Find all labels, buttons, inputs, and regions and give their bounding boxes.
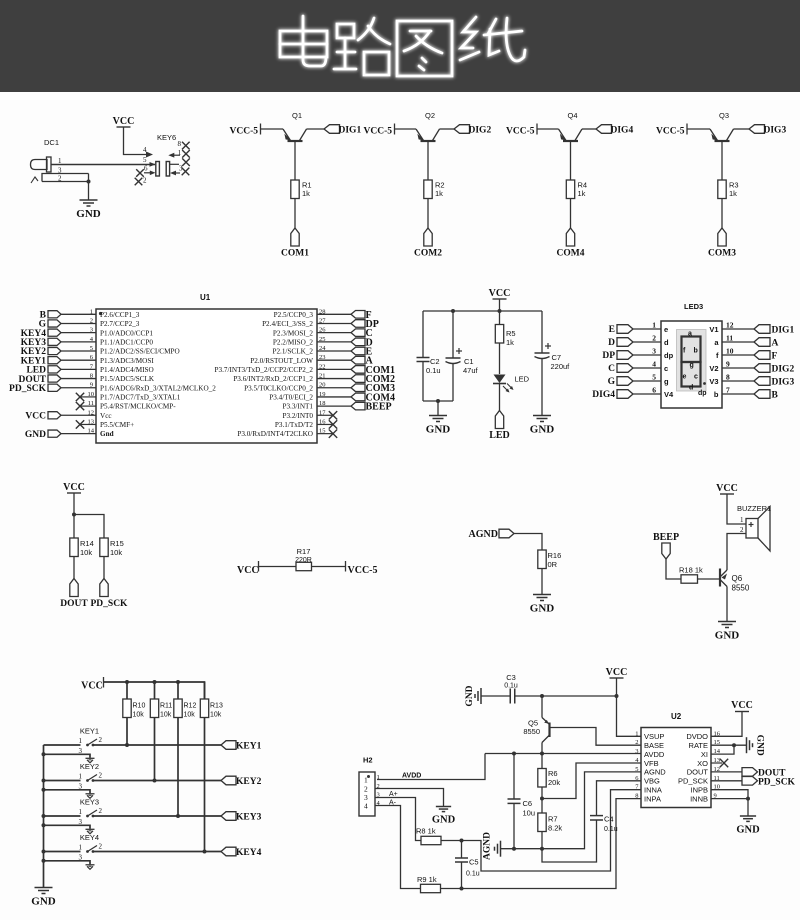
svg-text:Q4: Q4: [568, 111, 578, 120]
svg-text:RATE: RATE: [689, 741, 708, 750]
U1 pin1 dot: [99, 312, 102, 315]
wire AVDD rail from H2 pin1: [377, 754, 485, 780]
svg-text:U1: U1: [200, 293, 211, 302]
wire R11 top: [154, 682, 156, 699]
wire KEY1 pin2 to tag: [93, 744, 221, 746]
svg-text:e: e: [683, 374, 687, 381]
svg-text:G: G: [608, 377, 616, 387]
svg-text:2: 2: [99, 807, 103, 815]
svg-text:g: g: [664, 377, 669, 386]
svg-text:BASE: BASE: [644, 741, 664, 750]
wire R15 to PD_SCK tag: [103, 557, 105, 579]
junction Q5 emitter node: [540, 694, 544, 698]
svg-text:1k: 1k: [506, 338, 514, 347]
svg-text:AVDD: AVDD: [402, 773, 421, 780]
svg-text:B: B: [772, 391, 779, 401]
wire DC1 pin3 bracket: [42, 174, 89, 182]
svg-text:8: 8: [178, 140, 182, 148]
ground GND below Q6: [718, 621, 736, 623]
svg-text:DIG1: DIG1: [772, 326, 795, 336]
svg-text:AGND: AGND: [469, 529, 498, 540]
wire Q4 collector to DIG4: [582, 128, 596, 130]
resistor R7 8.2k: [538, 813, 546, 832]
connector tag KEY3: [221, 812, 236, 821]
banner background: [0, 0, 800, 92]
svg-text:4: 4: [652, 360, 656, 369]
U1 pin 8 tag DOUT: [48, 375, 61, 382]
svg-text:Q1: Q1: [292, 111, 302, 120]
svg-text:KEY2: KEY2: [236, 777, 262, 787]
wire branch to R15: [74, 515, 104, 539]
svg-text:5: 5: [635, 766, 638, 773]
svg-text:VCC: VCC: [81, 681, 103, 692]
wire U2 pin9 INNB to GND: [711, 798, 748, 800]
svg-text:C1: C1: [464, 357, 474, 366]
ground GND below C7: [533, 415, 551, 417]
wire R5 to LED: [499, 343, 501, 374]
svg-text:2: 2: [740, 526, 744, 534]
junction R15 branch: [72, 513, 76, 517]
svg-text:P1.6/ADC6/RxD_3/XTAL2/MCLKO_2: P1.6/ADC6/RxD_3/XTAL2/MCLKO_2: [100, 384, 216, 392]
svg-text:8: 8: [90, 373, 93, 380]
no-connect X U1 pin 16: [317, 423, 333, 425]
svg-text:23: 23: [319, 354, 326, 361]
svg-text:P2.2/MISO_2: P2.2/MISO_2: [273, 338, 314, 346]
svg-text:10k: 10k: [110, 548, 122, 557]
svg-text:2: 2: [143, 177, 147, 185]
svg-text:R12: R12: [184, 703, 197, 710]
junction C5 top: [460, 839, 464, 843]
svg-text:28: 28: [319, 308, 326, 315]
wire to GND below U2: [747, 799, 749, 816]
KEY6 switch body pads: [156, 162, 160, 177]
svg-text:10: 10: [88, 391, 95, 398]
svg-text:P2.5/CCP0_3: P2.5/CCP0_3: [274, 311, 314, 319]
svg-text:C4: C4: [604, 815, 614, 824]
wire KEY4 pin2 to tag: [93, 851, 221, 853]
wire VCC-5 to Q1 emitter: [261, 128, 284, 130]
svg-text:5: 5: [90, 345, 93, 352]
svg-text:c: c: [664, 364, 668, 373]
wire Q1 base to R1: [294, 141, 296, 180]
wire VCC to R17: [259, 566, 297, 568]
svg-text:GND: GND: [755, 735, 765, 756]
no-connect X KEY6 pin8: [182, 142, 190, 150]
wire U1 pin 14: [61, 433, 96, 435]
resistor R3 1k: [718, 180, 726, 199]
no-connect X KEY6 pin3: [182, 168, 190, 176]
svg-text:BEEP: BEEP: [653, 532, 679, 543]
no-connect X KEY6 right pin2: [182, 158, 190, 166]
wire keypad VCC rail: [104, 682, 205, 699]
resistor R8 1k: [421, 836, 441, 844]
connector DC1 barrel jack: [31, 160, 48, 170]
wire U2 pin15 RATE to GND: [711, 744, 747, 746]
svg-text:GND: GND: [426, 424, 451, 436]
banner title glyph strokes: [280, 16, 525, 76]
wire R13 top: [204, 682, 206, 699]
svg-text:9: 9: [726, 360, 730, 369]
svg-text:C5: C5: [469, 858, 479, 867]
svg-text:COM4: COM4: [557, 249, 585, 259]
svg-text:P2.6/CCP1_3: P2.6/CCP1_3: [100, 311, 140, 319]
svg-text:DIG4: DIG4: [611, 126, 634, 136]
svg-text:220R: 220R: [295, 557, 312, 564]
U1 pin 1 tag B: [48, 311, 61, 318]
U1 pin 5 tag KEY2: [48, 347, 61, 354]
wire KEY6 pin6 stub: [144, 172, 151, 174]
svg-text:1: 1: [364, 776, 368, 785]
wire KEY2 pin2 to tag: [93, 780, 221, 782]
wire U1 pin 1: [61, 313, 96, 315]
resistor R10 10k: [123, 699, 131, 718]
U1 pin 20 tag COM3: [317, 387, 351, 389]
wire U1 pin 4: [61, 341, 96, 343]
svg-text:1: 1: [79, 737, 83, 745]
wire LED3 pin 6: [633, 393, 661, 395]
svg-text:DIG4: DIG4: [592, 390, 615, 400]
ground GND below C1 C2: [429, 415, 447, 417]
svg-text:3: 3: [652, 347, 656, 356]
svg-text:V4: V4: [664, 390, 674, 399]
svg-text:2: 2: [99, 736, 103, 744]
wire pin5 arrowhead into pad: [150, 162, 156, 167]
connector H2 body: [359, 772, 375, 816]
svg-text:R17: R17: [297, 547, 311, 556]
capacitor C2: [422, 311, 424, 358]
svg-text:C3: C3: [506, 673, 516, 682]
svg-text:8.2k: 8.2k: [548, 824, 562, 833]
svg-text:0.1u: 0.1u: [466, 871, 480, 878]
junction Q5 collector AVDD: [540, 752, 544, 756]
svg-text:KEY6: KEY6: [157, 133, 176, 142]
junction R12 top: [176, 680, 180, 684]
svg-text:GND: GND: [465, 685, 475, 706]
svg-text:C: C: [608, 364, 615, 374]
connector tag COM3: [718, 228, 726, 246]
wire Q5 base to U2 pin2 BASE: [550, 728, 642, 746]
svg-text:1: 1: [652, 321, 656, 330]
svg-text:P1.0/ADC0/CCP1: P1.0/ADC0/CCP1: [100, 329, 153, 337]
resistor R13 10k: [200, 699, 208, 718]
svg-text:PD_SCK: PD_SCK: [91, 599, 129, 609]
wire H2 pin2 to GND: [375, 789, 444, 807]
svg-text:Q2: Q2: [425, 111, 435, 120]
svg-text:18: 18: [319, 400, 326, 407]
capacitor C1 47uf: [452, 311, 454, 358]
svg-text:LED: LED: [489, 430, 510, 441]
wire R10 top: [126, 682, 128, 699]
U1 pin 6 tag KEY1: [48, 357, 61, 364]
wire bracket vertical to ground: [88, 174, 90, 201]
wire KEY6 right pad pin2: [170, 163, 179, 165]
resistor R18 1k: [681, 575, 698, 583]
svg-text:d: d: [664, 338, 669, 347]
svg-text:P5.5/CMF+: P5.5/CMF+: [100, 421, 134, 429]
svg-text:P1.4/ADC4/MISO: P1.4/ADC4/MISO: [100, 366, 154, 374]
svg-text:13: 13: [88, 418, 95, 425]
svg-text:COM2: COM2: [414, 249, 442, 259]
no-connect X U1 pin 11: [80, 405, 96, 407]
svg-text:LED3: LED3: [684, 302, 703, 311]
LED3 pin 6 tag DIG4: [617, 390, 633, 399]
svg-text:AGND: AGND: [644, 768, 666, 777]
svg-text:F: F: [772, 352, 778, 362]
LED3 pin 3 tag DP: [617, 351, 633, 360]
wire buzzer pin2 to Q6 emitter: [727, 534, 746, 571]
connector tag DIG2: [454, 125, 470, 134]
wire R14 to DOUT tag: [73, 557, 75, 579]
wire U1 pin 6: [61, 359, 96, 361]
wire C3 to VCC junction: [515, 695, 617, 697]
svg-text:1k: 1k: [578, 189, 586, 198]
wire BEEP to R18: [666, 559, 681, 579]
ground GND below H2 pin2: [436, 806, 451, 808]
svg-text:AGND: AGND: [483, 832, 493, 860]
svg-text:b: b: [694, 348, 698, 355]
svg-text:BEEP: BEEP: [366, 402, 392, 413]
U1 pin 18 tag BEEP: [317, 405, 351, 407]
svg-text:R7: R7: [548, 815, 558, 824]
wire bus to KEY1 pin1: [44, 744, 81, 746]
svg-text:1: 1: [79, 808, 83, 816]
U1 pin 19 tag COM4: [317, 396, 351, 398]
svg-text:KEY4: KEY4: [236, 848, 262, 858]
svg-text:Q6: Q6: [732, 574, 743, 583]
connector tag DIG4: [596, 125, 612, 134]
connector tag KEY4: [221, 847, 236, 856]
junction R11 top: [153, 680, 157, 684]
svg-text:P1.1/ADC1/CCP0: P1.1/ADC1/CCP0: [100, 338, 153, 346]
wire DC1 pin2: [42, 181, 89, 183]
svg-text:10k: 10k: [133, 712, 145, 719]
svg-text:P3.6/INT2/RxD_2/CCP1_2: P3.6/INT2/RxD_2/CCP1_2: [233, 375, 313, 383]
connector tag DOUT: [70, 579, 78, 597]
junction C6 top: [512, 752, 516, 756]
svg-text:C6: C6: [523, 799, 533, 808]
svg-text:VCC-5: VCC-5: [348, 565, 378, 576]
U1 pin 3 tag KEY4: [48, 329, 61, 336]
svg-text:1: 1: [377, 774, 380, 781]
svg-text:DIG2: DIG2: [469, 126, 492, 136]
junction bus KEY3: [42, 814, 46, 818]
wire VCC to R14 R15: [73, 493, 75, 538]
svg-text:0R: 0R: [548, 560, 558, 569]
svg-text:P1.5/ADC5/SCLK: P1.5/ADC5/SCLK: [100, 375, 155, 383]
connector tag PD_SCK: [100, 579, 108, 597]
svg-text:c: c: [694, 374, 698, 381]
svg-text:2: 2: [652, 334, 656, 343]
U1 pin 4 tag KEY3: [48, 338, 61, 345]
svg-text:PD_SCK: PD_SCK: [678, 777, 708, 786]
wire R12 top: [177, 682, 179, 699]
svg-text:4: 4: [143, 146, 147, 154]
LED3 pin 8 tag DIG3: [722, 380, 754, 382]
diode LED: [494, 375, 506, 384]
wire U1 pin 5: [61, 350, 96, 352]
junction R13 bottom: [203, 850, 207, 854]
svg-text:VBG: VBG: [644, 777, 660, 786]
svg-text:27: 27: [319, 317, 326, 324]
svg-text:KEY4: KEY4: [80, 833, 99, 842]
junction bus KEY4 pin3: [42, 859, 46, 863]
svg-text:P3.5/T0CLKO/CCP0_2: P3.5/T0CLKO/CCP0_2: [244, 384, 313, 392]
ground GND below DC1: [80, 199, 98, 201]
resistor R5 1k: [499, 311, 501, 324]
svg-text:P1.2/ADC2/SS/ECI/CMPO: P1.2/ADC2/SS/ECI/CMPO: [100, 348, 180, 356]
svg-text:2: 2: [635, 739, 638, 746]
svg-text:1: 1: [635, 730, 638, 737]
wire bus to KEY3 pin1: [44, 815, 81, 817]
svg-text:R9 1k: R9 1k: [417, 875, 437, 884]
wire VCC down to U2 pin1 VSUP: [617, 678, 642, 736]
resistor R6 20k: [541, 754, 543, 769]
svg-text:R6: R6: [548, 769, 558, 778]
junction bus KEY1 pin3: [42, 752, 46, 756]
svg-text:VCC: VCC: [237, 565, 259, 576]
LED3 pin 1 tag E: [617, 325, 633, 334]
wire KEY3 pin2 to tag: [93, 815, 221, 817]
wire U1 pin 9: [61, 387, 96, 389]
svg-text:DOUT: DOUT: [60, 599, 88, 609]
wire R11 to KEY2 line: [154, 718, 156, 781]
U1 pin 9 tag PD_SCK: [48, 384, 61, 391]
LED3 pin 2 tag D: [617, 338, 633, 347]
svg-text:VCC: VCC: [489, 288, 511, 299]
wire VBG via C4 to AGND: [597, 781, 642, 816]
svg-text:12: 12: [726, 321, 734, 330]
wire LED3 pin 3: [633, 354, 661, 356]
wire VCC to buzzer pin1: [727, 494, 746, 524]
svg-text:Gnd: Gnd: [100, 430, 114, 438]
wire R3 to COM3: [721, 199, 723, 229]
LED3 pin 9 tag DIG2: [722, 367, 754, 369]
svg-text:3: 3: [90, 327, 93, 334]
connector tag COM2: [424, 228, 432, 246]
svg-text:P3.2/INT0: P3.2/INT0: [282, 412, 313, 420]
svg-text:10k: 10k: [184, 712, 196, 719]
U1 pin 23 tag A: [317, 359, 351, 361]
connector tag KEY2: [221, 776, 236, 785]
svg-text:220uf: 220uf: [551, 362, 571, 371]
LED3 seven segment graphic: [677, 330, 707, 392]
ground GND below U2 right: [740, 815, 756, 817]
svg-text:VCC: VCC: [716, 483, 738, 494]
svg-text:1: 1: [90, 308, 93, 315]
no-connect X U1 pin 15: [317, 433, 333, 435]
U1 pin 27 tag DP: [317, 322, 351, 324]
svg-text:V2: V2: [709, 364, 718, 373]
junction C6 bottom: [512, 847, 516, 851]
svg-text:3: 3: [635, 748, 638, 755]
U2 pin11 tag PD_SCK: [711, 780, 742, 782]
transistor Q6 8550: [719, 569, 721, 587]
svg-text:V3: V3: [709, 377, 718, 386]
svg-text:R15: R15: [110, 539, 124, 548]
wire VCC-5 to Q4 emitter: [537, 128, 559, 130]
junction C1 node: [451, 309, 455, 313]
svg-text:INPB: INPB: [690, 786, 708, 795]
wire C2 C1 bottom rail: [423, 400, 453, 402]
svg-text:d: d: [689, 385, 693, 392]
junction bus KEY2: [42, 779, 46, 783]
svg-text:GND: GND: [31, 896, 56, 908]
svg-text:P2.1/SCLK_2: P2.1/SCLK_2: [272, 348, 313, 356]
svg-text:6: 6: [652, 386, 656, 395]
wire KEY6 right pad pin3: [173, 172, 180, 174]
wire R8 to INNA route: [441, 840, 462, 842]
wire AGND rail: [501, 772, 642, 849]
svg-text:7: 7: [726, 386, 730, 395]
junction R11 bottom: [153, 779, 157, 783]
svg-text:INNA: INNA: [644, 786, 662, 795]
wire U1 pin 7: [61, 368, 96, 370]
svg-text:21: 21: [319, 373, 326, 380]
ground GND left of C3: [480, 688, 482, 704]
LED3 pin 12 tag DIG1: [722, 328, 754, 330]
svg-text:KEY1: KEY1: [80, 727, 99, 736]
wire R18 to Q6 base: [698, 578, 721, 580]
svg-text:20k: 20k: [548, 778, 560, 787]
svg-text:H2: H2: [363, 756, 373, 765]
svg-text:1: 1: [79, 773, 83, 781]
svg-text:GND: GND: [715, 630, 740, 642]
ground GND keypad bus: [35, 887, 53, 889]
svg-text:C7: C7: [552, 353, 562, 362]
wire R4 to COM4: [570, 199, 572, 229]
wire GND to C3: [481, 695, 510, 697]
resistor R16 0R: [538, 550, 546, 569]
svg-text:VFB: VFB: [644, 759, 659, 768]
wire DC1 pin1 to KEY6 pin5: [51, 164, 155, 166]
junction bus KEY3 pin3: [42, 823, 46, 827]
svg-text:VSUP: VSUP: [644, 732, 664, 741]
svg-text:10k: 10k: [80, 548, 92, 557]
U1 pin 12 tag VCC: [48, 412, 61, 419]
capacitor C6 10u: [513, 754, 515, 800]
svg-text:P2.7/CCP2_3: P2.7/CCP2_3: [100, 320, 140, 328]
svg-text:Q3: Q3: [719, 111, 729, 120]
svg-text:C2: C2: [430, 357, 440, 366]
junction R10 top: [125, 680, 129, 684]
U1 pin 21 tag COM2: [317, 378, 351, 380]
svg-text:DOUT: DOUT: [687, 768, 709, 777]
svg-text:GND: GND: [432, 815, 456, 826]
svg-text:10k: 10k: [160, 712, 172, 719]
wire LED to tag: [499, 384, 501, 411]
svg-text:R14: R14: [80, 539, 94, 548]
svg-text:P1.7/ADC7/TxD_3/XTAL1: P1.7/ADC7/TxD_3/XTAL1: [100, 394, 181, 402]
svg-text:P3.1/TxD/T2: P3.1/TxD/T2: [275, 421, 314, 429]
wire U1 pin 2: [61, 322, 96, 324]
svg-text:6: 6: [144, 165, 148, 173]
svg-text:KEY3: KEY3: [236, 812, 262, 822]
U1 pin 25 tag D: [317, 341, 351, 343]
svg-text:DC1: DC1: [44, 138, 59, 147]
svg-text:19: 19: [319, 391, 326, 398]
svg-text:KEY3: KEY3: [80, 798, 99, 807]
capacitor C5 0.1u: [461, 841, 463, 859]
svg-text:KEY1: KEY1: [236, 741, 262, 751]
svg-text:DIG2: DIG2: [772, 365, 795, 375]
wire LED3 pin 4: [633, 367, 661, 369]
svg-text:a: a: [688, 331, 692, 338]
junction R12 bottom: [176, 814, 180, 818]
svg-text:VCC: VCC: [731, 700, 753, 711]
svg-text:g: g: [690, 362, 694, 369]
connector tag DIG3: [749, 125, 765, 134]
wire KEY6 pin1 arrow left: [172, 154, 180, 156]
